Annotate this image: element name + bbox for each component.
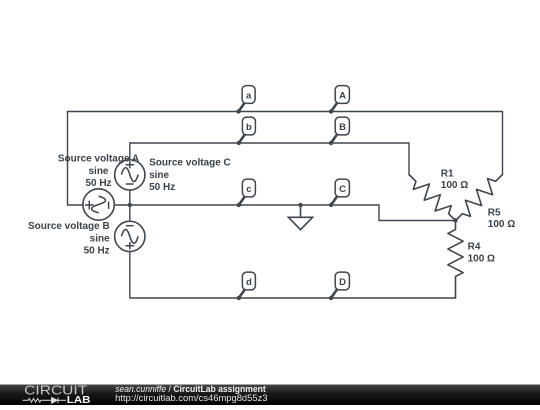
node flag b (239, 117, 256, 143)
wire net a (68, 112, 503, 206)
svg-text:Source voltage C: Source voltage C (149, 158, 231, 169)
wire net c (114, 205, 455, 221)
svg-text:R5: R5 (488, 208, 501, 219)
junction dot flag A (329, 109, 333, 113)
junction dot flag d (237, 296, 241, 300)
svg-text:sine: sine (90, 233, 110, 244)
label R1 100 Ohm (441, 168, 468, 191)
node flag A (331, 86, 349, 112)
wire source C bottom lead (129, 190, 131, 205)
junction dot ground (298, 203, 302, 207)
voltage source V3 (Source voltage C, vertical) (115, 160, 145, 190)
svg-text:50 Hz: 50 Hz (85, 178, 111, 189)
svg-text:C: C (339, 184, 346, 195)
svg-text:d: d (246, 277, 252, 288)
ground (288, 205, 312, 230)
svg-text:b: b (246, 122, 252, 133)
wire source B top lead (129, 205, 131, 222)
svg-text:A: A (339, 91, 346, 102)
node flag B (331, 117, 349, 143)
resistor R5 (456, 175, 503, 221)
CircuitLab logo resistor-diode icon wire (23, 398, 66, 404)
svg-text:100 Ω: 100 Ω (488, 219, 515, 230)
wire net b (130, 143, 409, 175)
junction dot R1 R5 R4 (453, 218, 457, 222)
resistor R1 (409, 175, 456, 221)
junction dot flag b (237, 141, 241, 145)
junction dot flag C (329, 203, 333, 207)
junction dot flag D (329, 296, 333, 300)
label Source voltage C (149, 158, 231, 193)
label R4 100 Ohm (468, 242, 495, 265)
svg-text:R1: R1 (441, 168, 454, 179)
node flag C (331, 179, 349, 205)
node flag D (331, 272, 349, 298)
svg-text:B: B (339, 122, 346, 133)
label R5 100 Ohm (488, 208, 515, 231)
junction dot flag B (329, 141, 333, 145)
svg-text:R4: R4 (468, 242, 481, 253)
node flag d (239, 272, 256, 298)
label Source voltage A (58, 153, 139, 189)
label Source voltage B (28, 221, 110, 256)
svg-text:50 Hz: 50 Hz (149, 182, 175, 193)
node flag a (239, 86, 256, 112)
svg-text:D: D (339, 277, 346, 288)
voltage source V1 (Source voltage A, horizontal) (83, 189, 114, 220)
svg-text:http://circuitlab.com/cs46mpg8: http://circuitlab.com/cs46mpg8d55z3 (115, 393, 267, 403)
svg-text:100 Ω: 100 Ω (441, 180, 468, 191)
svg-text:sine: sine (88, 166, 108, 177)
wire net d (130, 251, 456, 298)
voltage source V2 (Source voltage B, vertical) (115, 221, 145, 251)
resistor R4 (448, 221, 463, 299)
svg-text:a: a (246, 91, 252, 102)
junction dot flag c (237, 203, 241, 207)
node flag c (239, 179, 256, 205)
svg-text:100 Ω: 100 Ω (468, 254, 495, 265)
CircuitLab logo diode triangle (52, 397, 58, 403)
junction dot at sources (128, 203, 132, 207)
svg-text:Source voltage A: Source voltage A (58, 153, 139, 164)
svg-text:50 Hz: 50 Hz (84, 245, 110, 256)
svg-text:Source voltage B: Source voltage B (28, 221, 110, 232)
svg-text:sine: sine (149, 170, 169, 181)
junction dot flag a (236, 109, 240, 113)
svg-text:LAB: LAB (67, 394, 91, 405)
footer bar (0, 385, 540, 406)
svg-text:c: c (246, 184, 251, 195)
